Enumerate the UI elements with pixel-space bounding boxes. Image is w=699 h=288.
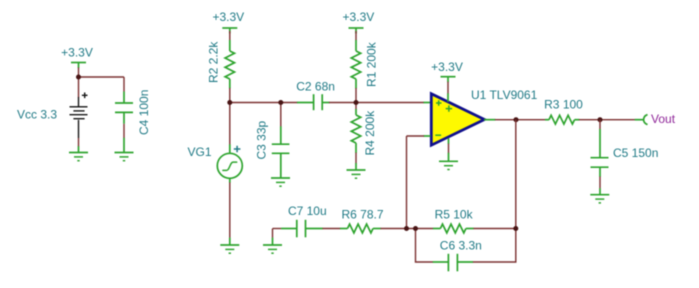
svg-text:C3 33p: C3 33p (255, 120, 269, 159)
svg-text:+3.3V: +3.3V (343, 10, 375, 24)
svg-text:+3.3V: +3.3V (431, 60, 463, 74)
svg-text:C7 10u: C7 10u (288, 204, 327, 218)
svg-text:Vcc 3.3: Vcc 3.3 (17, 108, 57, 122)
svg-text:C5 150n: C5 150n (613, 146, 658, 160)
svg-text:U1 TLV9061: U1 TLV9061 (471, 88, 538, 102)
svg-text:R1 200k: R1 200k (365, 41, 379, 87)
svg-text:C4 100n: C4 100n (137, 90, 151, 135)
svg-text:R4 200k: R4 200k (363, 110, 377, 156)
svg-text:+3.3V: +3.3V (61, 46, 93, 60)
svg-text:VG1: VG1 (187, 145, 211, 159)
svg-text:C2 68n: C2 68n (296, 79, 335, 93)
svg-text:+3.3V: +3.3V (212, 10, 244, 24)
svg-text:R3 100: R3 100 (544, 97, 583, 111)
svg-text:R2 2.2k: R2 2.2k (207, 41, 221, 83)
svg-text:C6 3.3n: C6 3.3n (440, 238, 482, 252)
svg-text:Vout: Vout (651, 112, 676, 126)
svg-text:R5 10k: R5 10k (435, 207, 474, 221)
svg-text:R6 78.7: R6 78.7 (341, 208, 383, 222)
